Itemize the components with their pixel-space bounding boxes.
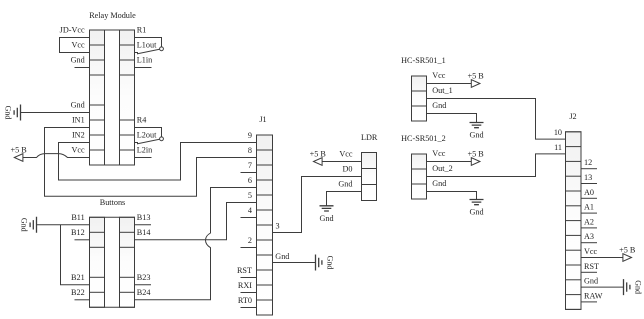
L1in pin stub [135,67,152,69]
ground (J1) [316,255,335,271]
svg-text:+5 B: +5 B [467,72,484,81]
svg-text:JD-Vcc: JD-Vcc [60,26,85,35]
svg-text:J1: J1 [259,115,266,124]
svg-text:RXI: RXI [238,281,252,290]
svg-text:Gnd: Gnd [432,101,446,110]
svg-text:Gnd: Gnd [634,280,643,294]
svg-text:RT0: RT0 [238,296,252,305]
svg-text:Gnd: Gnd [319,214,333,223]
svg-text:Gnd: Gnd [469,131,483,140]
svg-text:+5 B: +5 B [467,150,484,159]
svg-text:HC-SR501_1: HC-SR501_1 [401,56,446,65]
svg-text:RAW: RAW [584,291,603,300]
ground (HC2) [469,200,483,217]
svg-text:Gnd: Gnd [4,106,13,120]
svg-text:Gnd: Gnd [275,252,289,261]
B23 pin stub [135,284,152,286]
HC-SR501_2 module body [412,154,427,199]
wire J2 Gnd to ground [581,286,624,288]
svg-text:11: 11 [554,143,562,152]
svg-text:L1out: L1out [137,41,157,50]
svg-text:L2in: L2in [137,146,152,155]
J2 pin stub 12 [581,168,597,170]
relay module U_relay body [90,30,135,165]
svg-text:12: 12 [584,158,592,167]
svg-text:+5 B: +5 B [10,146,27,155]
wire J1 Gnd to ground [273,262,316,264]
svg-text:Gnd: Gnd [338,179,352,188]
svg-text:4: 4 [248,206,252,215]
svg-text:Vcc: Vcc [432,149,446,158]
svg-text:+5 B: +5 B [619,246,636,255]
wire LDR Gnd down [327,192,362,206]
svg-text:10: 10 [554,128,562,137]
svg-text:B22: B22 [71,288,85,297]
svg-text:RST: RST [584,262,599,271]
svg-text:5: 5 [248,191,252,200]
B13 pin stub [135,224,152,226]
svg-text:8: 8 [248,146,252,155]
svg-text:A0: A0 [584,188,594,197]
J2 pin stub RAW [581,301,597,303]
wire B14 to J1 pin 5 [135,203,257,240]
svg-text:Gnd: Gnd [71,101,85,110]
connector J2 body [566,132,582,310]
ground (buttons) [20,217,37,233]
svg-text:RST: RST [237,266,252,275]
ground (LDR) [319,206,333,223]
wire buttons ground to B11 [37,224,90,226]
svg-text:Vcc: Vcc [584,247,598,256]
svg-text:D0: D0 [342,164,352,173]
svg-text:Vcc: Vcc [72,146,86,155]
wire jumper JD-Vcc to Vcc [60,38,90,53]
svg-text:Relay Module: Relay Module [89,11,136,20]
ground (relay) [4,105,21,121]
svg-text:Vcc: Vcc [432,71,446,80]
B12 pin stub [75,239,90,241]
J1 pin stub RXI [241,292,257,294]
HC-SR501_1 module body [412,76,427,121]
connector J1 body [257,135,273,315]
relay contact R1/L1out [135,38,164,54]
power +5 B (J2) [619,246,636,262]
J2 pin stub 13 [581,183,597,185]
J2 pin stub A0 [581,197,597,199]
J1 pin stub 2 [241,247,257,249]
svg-text:Buttons: Buttons [100,198,125,207]
wire branch ground to B21 [61,225,90,285]
svg-text:R1: R1 [137,26,147,35]
svg-text:B12: B12 [71,228,85,237]
svg-text:9: 9 [248,131,252,140]
buttons module body [90,217,135,307]
power +5 B (HC1) [467,72,484,88]
J1 pin stub 7 [241,172,257,174]
svg-text:HC-SR501_2: HC-SR501_2 [401,134,446,143]
relay contact R4/L2out [135,128,164,144]
svg-text:2: 2 [248,236,252,245]
J2 pin stub A3 [581,242,597,244]
svg-text:B23: B23 [137,273,151,282]
svg-text:Vcc: Vcc [339,149,353,158]
svg-text:IN1: IN1 [72,116,85,125]
J2 pin stub A2 [581,227,597,229]
wire IN1 to J1 pin 8 [45,128,257,197]
ground (HC1) [469,123,483,140]
ground (J2) [624,279,643,295]
svg-text:A1: A1 [584,203,594,212]
J1 pin stub RST [241,277,257,279]
power +5 B (relay Vcc) [10,146,27,162]
wire LDR Vcc to +5 B [322,161,362,163]
power +5 B (LDR) [310,150,327,166]
wire J1 pin 3 to LDR D0 [273,177,362,233]
svg-text:Out_2: Out_2 [432,164,452,173]
J1 pin stub 4 [241,217,257,219]
svg-text:7: 7 [248,161,252,170]
svg-text:+5 B: +5 B [310,150,327,159]
wire relay Vcc to +5 B (with hop) [22,154,89,158]
wire Out_2 to J2 pin 11 [427,154,567,177]
svg-text:6: 6 [248,176,252,185]
wire IN2 to J1 pin 9 [59,143,257,181]
svg-text:Gnd: Gnd [326,256,335,270]
J1 pin stub RT0 [241,307,257,309]
wire HC1 Vcc to +5 B [427,83,472,85]
svg-text:Gnd: Gnd [432,179,446,188]
svg-text:R4: R4 [137,116,147,125]
wire HC2 Gnd down [427,192,477,200]
svg-text:Gnd: Gnd [469,208,483,217]
svg-text:Vcc: Vcc [72,41,86,50]
J2 pin stub RST [581,271,597,273]
wire J2 Vcc to +5 B [581,257,624,259]
wire HC1 Gnd down [427,114,477,123]
B22 pin stub [75,299,90,301]
svg-text:B13: B13 [137,213,151,222]
svg-text:B14: B14 [137,228,151,237]
svg-text:Gnd: Gnd [71,56,85,65]
svg-text:13: 13 [584,173,592,182]
svg-text:L1in: L1in [137,56,152,65]
svg-text:L2out: L2out [137,131,157,140]
wire Out_1 to J2 pin 10 [427,99,567,140]
J2 pin stub A1 [581,212,597,214]
svg-text:IN2: IN2 [72,131,85,140]
wire HC2 Vcc to +5 B [427,161,472,163]
svg-text:B24: B24 [137,288,151,297]
svg-text:Out_1: Out_1 [432,86,452,95]
svg-text:Gnd: Gnd [20,218,29,232]
svg-text:A3: A3 [584,232,594,241]
svg-text:J2: J2 [569,112,576,121]
wire B24 to J1 pin 6 (with hop) [135,188,257,300]
wire relay Gnd to ground [21,112,90,114]
relay Gnd pin stub (top) [75,67,90,69]
svg-text:3: 3 [276,222,280,231]
svg-text:A2: A2 [584,217,594,226]
svg-text:Gnd: Gnd [584,277,598,286]
svg-text:B11: B11 [71,213,84,222]
power +5 B (HC2) [467,150,484,166]
L2in pin stub [135,157,152,159]
LDR module body [362,153,377,201]
svg-text:LDR: LDR [361,133,378,142]
svg-text:B21: B21 [71,273,85,282]
